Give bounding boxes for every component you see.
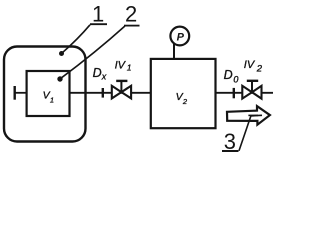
svg-text:IV: IV xyxy=(244,59,256,71)
svg-text:P: P xyxy=(177,31,185,43)
orifice D0 tick xyxy=(233,88,235,98)
leader line 3 xyxy=(239,115,262,151)
label IV2 xyxy=(244,59,263,75)
svg-text:1: 1 xyxy=(50,96,54,105)
valve IV2 stem xyxy=(251,81,253,92)
leader dot 2 xyxy=(57,76,62,81)
wire: V2 outlet through D0 and IV2 xyxy=(216,92,274,94)
label V2 xyxy=(176,91,188,106)
orifice Dx tick xyxy=(102,88,104,98)
leader line 2 xyxy=(60,26,125,79)
wire: blanked port to V1 inlet xyxy=(15,92,27,94)
wire: V1 outlet to V2 inlet xyxy=(70,92,151,94)
svg-text:2: 2 xyxy=(256,64,263,75)
svg-text:1: 1 xyxy=(92,2,104,27)
pressure gauge P xyxy=(170,27,189,46)
valve IV1 body xyxy=(112,86,131,99)
svg-text:D: D xyxy=(224,68,233,82)
valve IV2 body xyxy=(242,86,261,99)
valve IV1 handle bar xyxy=(116,80,127,82)
label Dx xyxy=(93,66,107,82)
valve IV1 stem xyxy=(120,81,122,92)
leader line 1 xyxy=(62,25,90,53)
svg-text:IV: IV xyxy=(115,59,127,71)
label IV1 xyxy=(115,59,132,72)
svg-text:2: 2 xyxy=(182,97,188,106)
vessel V2 xyxy=(151,59,216,128)
svg-text:2: 2 xyxy=(125,2,137,27)
leader dot 1 xyxy=(59,51,64,56)
valve IV2 handle bar xyxy=(247,80,258,82)
svg-text:D: D xyxy=(93,66,102,80)
svg-text:x: x xyxy=(101,72,107,82)
enclosure rounded box (item 1) xyxy=(4,47,86,142)
vessel V1 (item 2) xyxy=(27,71,70,116)
leader 3 horizontal foot xyxy=(248,114,258,116)
gauge stem xyxy=(173,44,175,59)
svg-text:1: 1 xyxy=(127,62,132,72)
svg-text:0: 0 xyxy=(233,74,238,84)
blank flange terminator bar xyxy=(13,86,15,100)
label D0 xyxy=(224,68,239,84)
label V1 xyxy=(43,90,54,105)
outflow arrow (item 3) xyxy=(227,106,270,125)
